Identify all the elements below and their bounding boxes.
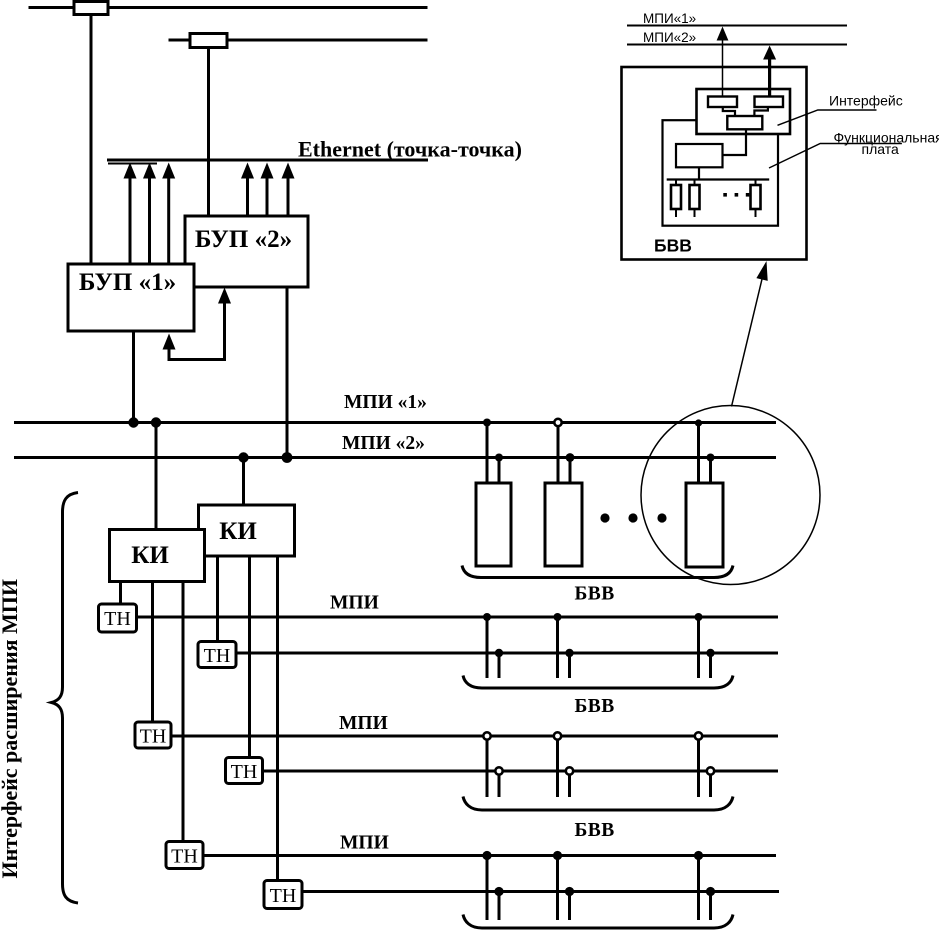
svg-text:БВВ: БВВ: [575, 584, 615, 605]
brace under group1: [463, 676, 733, 689]
highlight circle: [641, 406, 820, 585]
ellipsis dot 3: [657, 513, 666, 522]
svg-text:МПИ: МПИ: [340, 833, 389, 854]
wire group1 БВВ stub 3b: [709, 653, 712, 678]
svg-text:ТН: ТН: [140, 726, 167, 748]
connector 1: [671, 185, 681, 209]
junction dot КИ-left/МПИ«1»: [151, 417, 161, 427]
block ТН6: [264, 881, 302, 909]
Ethernet bus stub: [108, 163, 157, 165]
svg-text:МПИ«1»: МПИ«1»: [643, 11, 696, 26]
wire БВВ2 left drop from МПИ«1»: [557, 423, 560, 484]
wire КИ-right to ТН4: [248, 555, 251, 758]
arrow БУП«1» to Ethernet a3: [162, 163, 175, 266]
wire group2 БВВ stub 3b: [709, 771, 712, 797]
svg-text:МПИ«2»: МПИ«2»: [643, 30, 696, 45]
arrow circle to БВВ detail: [732, 261, 768, 407]
internal bus line: [667, 178, 770, 180]
junction group3 dot 3b: [706, 887, 715, 896]
connector pin 1 stub: [675, 180, 677, 218]
wire КИ-left to ТН1: [119, 581, 122, 605]
wire group2 БВВ stub 2b: [568, 771, 571, 797]
row2a bus МПИ: [171, 735, 778, 738]
junction group1 dot 3a: [695, 613, 703, 621]
junction dot БВВ1/МПИ«1»: [483, 419, 491, 427]
wire БВВ3 right drop from МПИ«2»: [709, 458, 712, 484]
junction group1 dot 2a: [554, 613, 562, 621]
row3a bus МПИ: [203, 854, 777, 857]
svg-text:МПИ «2»: МПИ «2»: [342, 433, 425, 454]
junction dot БВВ1/МПИ«2»: [495, 454, 503, 462]
connector pin 3 stub: [755, 180, 757, 218]
svg-text:Интерфейс расширения МПИ: Интерфейс расширения МПИ: [0, 579, 22, 879]
wire group3 БВВ stub 2b: [568, 892, 571, 921]
wire group2 БВВ stub 3a: [697, 736, 700, 797]
интерфейс board box: [697, 89, 791, 134]
junction dot БУП«1»/МПИ«1»: [128, 417, 138, 427]
block ТН1: [99, 604, 137, 632]
svg-text:ТН: ТН: [171, 846, 198, 868]
junction dot БВВ3/МПИ«1»: [695, 419, 702, 426]
ellipsis dot 1: [600, 513, 609, 522]
БВВ module 1: [476, 483, 511, 566]
wire group1 БВВ stub 1b: [498, 653, 501, 678]
Ethernet bus line: [107, 159, 428, 162]
wire БВВ1 left drop from МПИ«1»: [486, 423, 489, 484]
junction group3 dot 2a: [553, 851, 562, 860]
block КИ left: [110, 530, 205, 582]
junction dot БВВ3/МПИ«2»: [707, 454, 715, 462]
detail arrow to МПИ«1» (thin): [717, 27, 729, 97]
wire central chip to функциональная: [723, 130, 746, 156]
block БУП «1»: [68, 264, 194, 331]
wire БВВ1 right drop from МПИ«2»: [498, 458, 501, 484]
terminal group2 dot 1b: [495, 767, 502, 774]
junction dot БУП«2»/МПИ«2»: [282, 452, 293, 463]
block БУП «2»: [185, 216, 308, 287]
detail arrow to МПИ«2» (thick): [763, 46, 776, 97]
brace under group2: [463, 797, 733, 811]
svg-text:БВВ: БВВ: [575, 696, 615, 717]
junction group1 dot 3b: [706, 649, 714, 657]
wire КИ-left to ТН3: [151, 581, 154, 723]
row1a bus МПИ: [137, 616, 778, 619]
svg-text:ТН: ТН: [270, 885, 297, 907]
wire group1 БВВ stub 2a: [556, 617, 559, 678]
block ТН2: [198, 642, 236, 668]
junction dot КИ-right/МПИ«2»: [238, 452, 248, 462]
right chip step link: [754, 108, 768, 117]
junction group3 dot 3a: [694, 851, 703, 860]
row3b bus: [302, 890, 779, 893]
wire drop from T2 to БУП «2»: [207, 48, 210, 218]
wire group2 БВВ stub 2a: [556, 736, 559, 797]
svg-text:Интерфейс: Интерфейс: [829, 93, 903, 109]
arrow БУП«2» to Ethernet a4: [241, 163, 254, 218]
bidirectional link БУП«1»-БУП«2»: [163, 288, 232, 360]
интерфейс central chip: [727, 116, 762, 129]
wire КИ-right to ТН6: [276, 555, 279, 881]
brace under group3: [463, 915, 733, 929]
wire group3 БВВ stub 3b: [709, 892, 712, 921]
функциональная плата box: [663, 120, 779, 226]
left big brace: [52, 493, 79, 904]
wire feeder line 2: [169, 39, 428, 42]
wire group3 БВВ stub 1a: [486, 856, 489, 921]
junction dot БВВ2/МПИ«2»: [566, 453, 575, 462]
функциональная chip: [676, 144, 723, 167]
label Интерфейс with pointer: [778, 93, 903, 126]
svg-text:ТН: ТН: [231, 761, 258, 783]
arrow БУП«1» to Ethernet a1: [124, 163, 137, 266]
БВВ detail outer box: [622, 67, 807, 260]
junction group3 dot 1a: [482, 851, 491, 860]
wire group3 БВВ stub 2a: [556, 856, 559, 921]
ellipsis dot 2: [628, 513, 637, 522]
block ТН5: [166, 842, 203, 869]
МПИ «1» bus: [14, 421, 776, 424]
интерфейс right chip: [755, 97, 784, 108]
detail МПИ«2» line: [627, 44, 847, 46]
block ТН3: [135, 722, 171, 748]
brace under БВВ modules row 0: [462, 566, 733, 578]
wire БУП«2» to МПИ «2» bus: [286, 287, 289, 459]
wire функциональная chip to internal bus: [698, 167, 700, 180]
МПИ «2» bus: [14, 456, 776, 459]
junction group1 dot 1a: [483, 613, 491, 621]
block КИ right: [199, 505, 295, 556]
svg-text:МПИ: МПИ: [339, 713, 388, 734]
wire БУП«1» to МПИ «1» bus: [132, 331, 135, 423]
terminator box T2 on feeder 2: [190, 34, 227, 48]
svg-text:БУП «1»: БУП «1»: [79, 269, 176, 296]
wire group2 БВВ stub 1b: [498, 771, 501, 797]
detail МПИ«1» line: [627, 25, 847, 27]
svg-text:БУП «2»: БУП «2»: [195, 226, 292, 253]
junction group1 dot 2b: [565, 649, 573, 657]
svg-text:Ethernet (точка-точка): Ethernet (точка-точка): [298, 137, 522, 162]
terminal group2 dot 1a: [483, 732, 490, 739]
terminator box T1 on feeder 1: [74, 2, 108, 15]
terminal group2 dot 3b: [707, 767, 714, 774]
svg-text:КИ: КИ: [219, 518, 257, 545]
connector 3: [751, 185, 761, 209]
terminal group2 dot 2a: [554, 732, 561, 739]
block ТН4: [226, 758, 263, 784]
svg-text:ТН: ТН: [104, 608, 131, 630]
arrow БУП«2» to Ethernet a5: [261, 163, 274, 218]
left chip step link: [723, 108, 735, 117]
arrow БУП«1» to Ethernet a2: [143, 163, 156, 266]
junction group3 dot 1b: [494, 887, 503, 896]
wire drop from T1 to БУП «1»: [90, 15, 93, 266]
arrow БУП«2» to Ethernet a6: [282, 163, 295, 218]
wire МПИ«1» to КИ-left: [155, 423, 158, 531]
wire group1 БВВ stub 2b: [568, 653, 571, 678]
интерфейс left chip: [708, 97, 737, 108]
wire МПИ«2» to КИ-right: [242, 458, 245, 507]
svg-text:КИ: КИ: [131, 542, 169, 569]
wire БВВ2 right drop from МПИ«2»: [569, 458, 572, 484]
connector 2: [690, 185, 700, 209]
wire КИ-left to ТН5: [182, 581, 185, 842]
connector pin 2 stub: [694, 180, 696, 218]
row1b bus: [236, 652, 778, 655]
wire group3 БВВ stub 3a: [697, 856, 700, 921]
wire group2 БВВ stub 1a: [486, 736, 489, 797]
svg-text:МПИ: МПИ: [330, 593, 379, 614]
wire БВВ3 left drop from МПИ«1»: [697, 423, 700, 484]
terminal group2 dot 3a: [695, 732, 702, 739]
wire group1 БВВ stub 1a: [486, 617, 489, 678]
wire КИ-right to ТН2: [216, 555, 219, 642]
terminal group2 dot 2b: [566, 767, 573, 774]
junction group3 dot 2b: [565, 887, 574, 896]
svg-text:ТН: ТН: [204, 645, 231, 667]
row2b bus: [262, 770, 778, 773]
wire feeder line 1: [29, 6, 428, 9]
svg-text:БВВ: БВВ: [575, 820, 615, 841]
label Функциональная плата with pointer: [769, 130, 939, 169]
junction group1 dot 1b: [495, 649, 503, 657]
БВВ module 3: [686, 483, 723, 567]
wire group3 БВВ stub 1b: [498, 892, 501, 921]
wire group1 БВВ stub 3a: [697, 617, 700, 678]
БВВ module 2: [545, 483, 582, 566]
open terminal БВВ2/МПИ«1»: [554, 419, 561, 426]
connector ellipsis dots: [723, 193, 749, 197]
svg-text:БВВ: БВВ: [654, 236, 692, 256]
svg-text:МПИ «1»: МПИ «1»: [344, 392, 427, 413]
